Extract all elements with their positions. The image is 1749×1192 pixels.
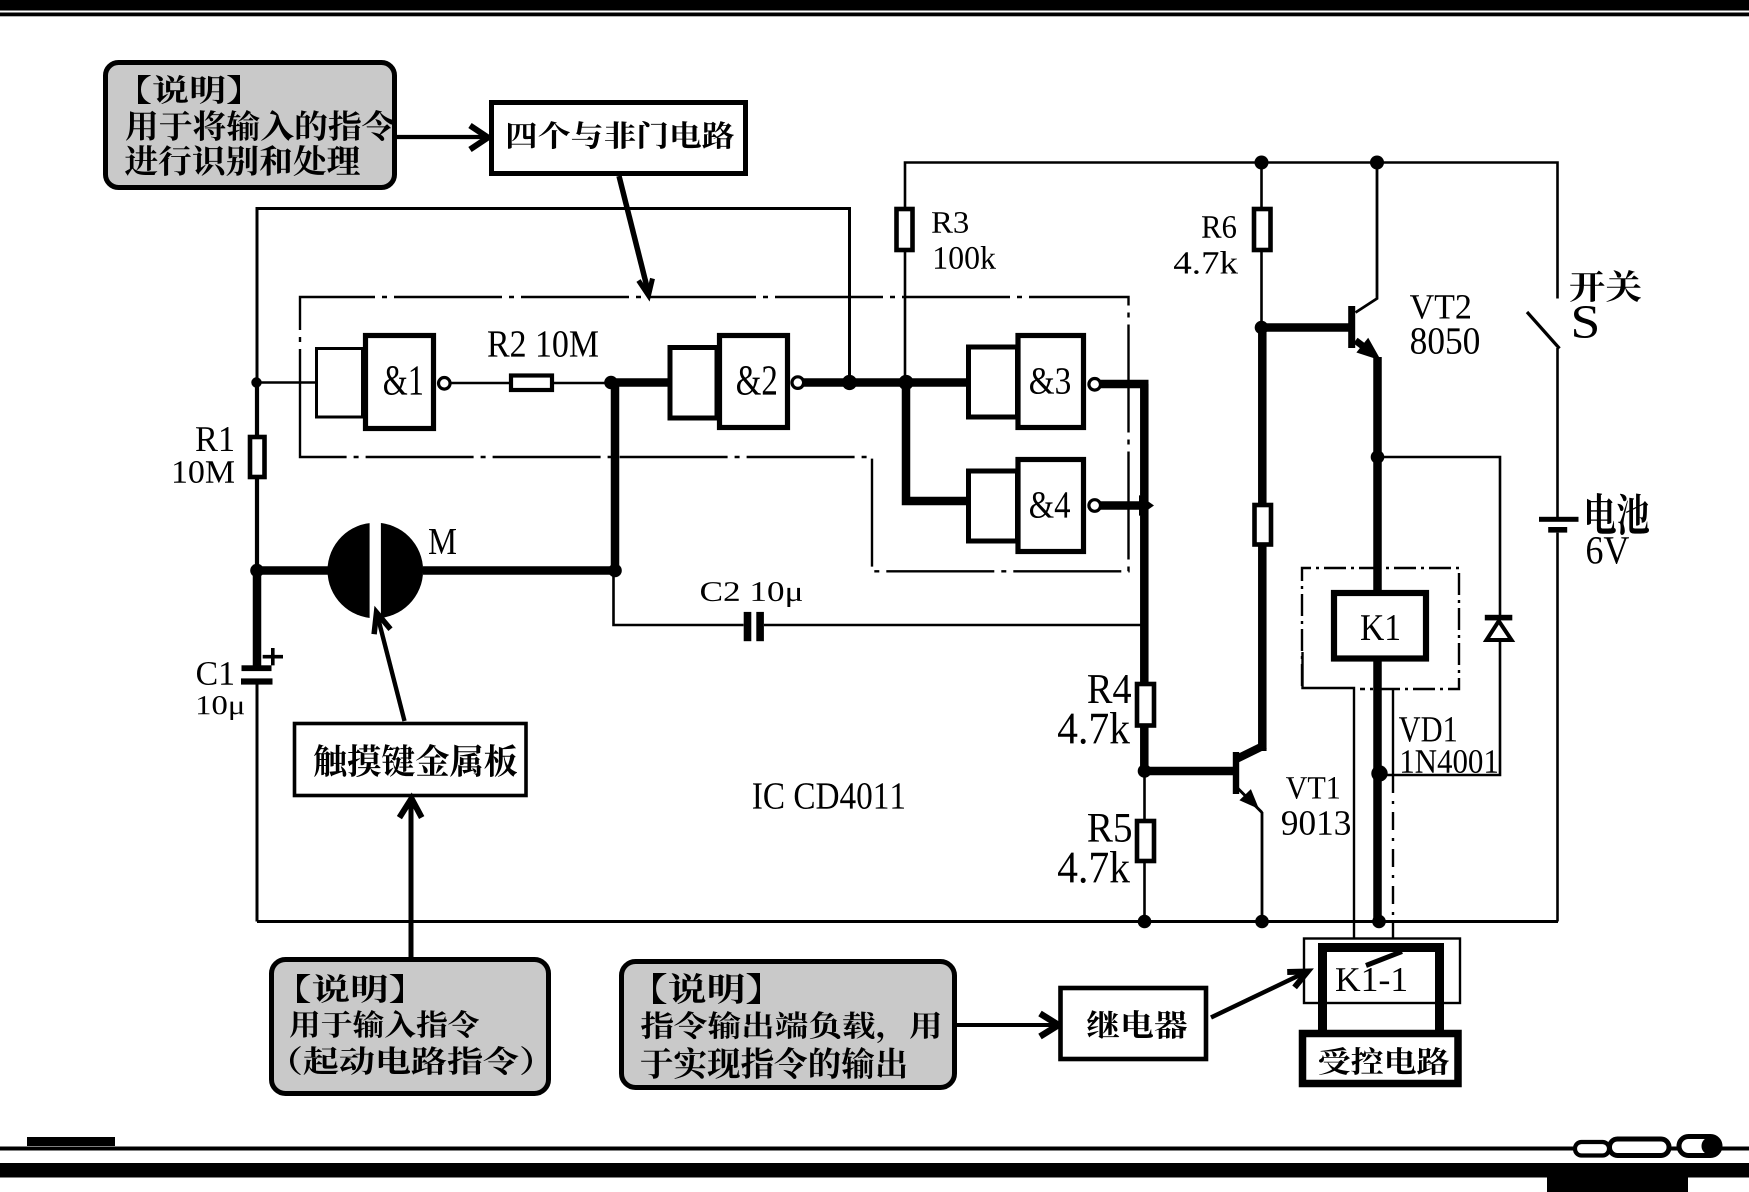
gate &2 input box [670,348,717,419]
page top black bar [0,0,1749,11]
arrowhead note1 to NAND-box [470,126,488,150]
capacitor C1 plate - (bottom) [241,678,273,684]
label R4 [1088,675,1131,703]
wire switch to battery [1556,348,1559,517]
wire VD1 top branch [1378,457,1501,615]
resistor R5 [1137,821,1154,861]
arrow NAND-box to IC outline [619,176,648,291]
note box 3 (output load) [622,962,955,1088]
junction node A [251,377,261,387]
touch plate M disc [328,523,424,619]
load box text 受控电路 [1319,1047,1449,1075]
arrow note1 to NAND-box [397,135,484,139]
gate &3 label [1030,368,1070,394]
note box 2 line 3 [290,1046,532,1075]
note box 1 (identify/process instructions) [106,63,395,188]
capacitor C1 polarity + [263,648,283,665]
junction node B (R2/&2/M) [604,376,618,390]
wire &2 output to &3 input (thick) [803,378,968,387]
note box 1 line 2 [126,110,395,141]
wire outer frame bottom [257,920,1558,923]
battery BT1 long plate [1539,517,1579,522]
label VD1 [1399,717,1456,742]
wire R5 to bottom rail [1143,861,1146,922]
wire base node down to R5 [1143,771,1146,821]
contact K1-1 outline box [1304,939,1460,1004]
label R5 [1088,814,1131,842]
wire &3 output right (thick) [1100,380,1149,389]
gate &4 body [1018,460,1084,552]
wire &1 out to R2 [451,382,512,385]
note box 3 line 2 [641,1011,940,1043]
junction emitter/VD1 top [1371,450,1385,464]
page bottom small tick [27,1137,115,1146]
touch plate M slit [370,522,381,619]
wire VT2 collector from rail [1356,163,1378,313]
value R4 4.7k [1058,712,1130,744]
transistor VT1 collector diagonal (thick) [1236,745,1266,760]
label R1 [196,427,233,451]
wire battery to bottom rail [1556,533,1559,922]
gate &2 body [720,336,788,428]
wire R4 to base node (thick) [1140,726,1149,772]
label R2 value 10M [488,331,598,357]
gate &4 output bubble [1089,500,1101,512]
wire R3 bottom to node [904,250,907,379]
wire VT2 base (thick) [1258,323,1351,332]
touch key label box 触摸键金属板 [295,724,527,796]
arrow relay-box to K1-1 [1211,974,1303,1018]
junction base node VT1 [1138,764,1152,778]
wire top rail [905,163,1558,299]
label box 四个与非门电路 [492,103,746,174]
junction rail/VT2 collector [1370,156,1384,170]
resistor R7 (collector chain) [1255,505,1272,545]
contact K1-1 frame (thick) [1323,948,1440,1032]
junction K1/VD1 bottom [1371,765,1387,781]
wire node to C1 (thick) [253,571,262,667]
arrowhead note2 to touch-key-box [399,799,421,818]
label VT2 [1410,295,1470,319]
wire M left (thick) [257,566,328,575]
contact K1-1 blade [1366,952,1402,966]
gate &4 input box [969,471,1018,541]
relay K1 outline (dash-dot) [1302,568,1459,689]
gate &1 output bubble [439,378,451,390]
junction &4 output/bus [1139,495,1154,516]
wire base node to VT1 (thick) [1141,767,1236,776]
gate &4 label [1030,492,1070,518]
wire node B down to M (thick) [611,383,620,571]
resistor R4 [1137,684,1154,726]
value VD1 1N4001 [1402,750,1497,773]
wire C2 to output bus [764,624,1144,627]
touch key label text [314,744,517,777]
label M [429,529,456,554]
wire K1 bottom (thick) [1373,662,1382,922]
wire branch down to &4 (thick) [906,379,968,501]
label R6 [1202,216,1236,238]
relay coil K1 box [1334,593,1426,659]
arrow touch-key-box to M [378,616,405,721]
value R5 4.7k [1058,851,1130,883]
battery BT1 short plate [1548,527,1567,533]
diode VD1 triangle [1487,621,1512,640]
load box 受控电路 [1303,1034,1459,1084]
label VT1 [1286,777,1339,799]
decoration pill 1 [1575,1142,1609,1156]
label box text 四个与非门电路 [508,121,734,149]
resistor R6 [1254,209,1271,250]
label C2 value 10μ [701,582,802,607]
transistor VT1 emitter arrowhead [1239,789,1259,809]
gate &3 output bubble [1089,379,1101,391]
relay label box 继电器 [1061,988,1207,1059]
relay label text 继电器 [1087,1010,1187,1039]
junction VT1 emitter/bottom rail [1255,915,1269,929]
capacitor C1 plate + (top) [242,665,272,671]
wire VT2 emitter down to K1 (thick) [1373,357,1382,590]
arrowhead NAND-box to IC outline [639,279,653,296]
wire R2 to node B [552,382,609,385]
junction &2out/outer-frame [842,375,857,390]
switch S blade [1527,312,1560,349]
wire outer frame left+top+right [257,209,850,922]
wire R6 bottom to VT2 base node [1260,250,1263,328]
gate &3 input box [969,347,1018,417]
transistor VT1 emitter diagonal [1237,788,1262,813]
junction M right node [608,564,622,578]
transistor VT1 base bar [1233,752,1239,794]
page top rule line [0,13,1749,17]
note box 3 line 3 [641,1047,906,1079]
gate &2 output bubble [792,377,804,389]
capacitor C1 dielectric gap mask [251,670,263,679]
junction &2out/R3 [898,375,913,390]
wire node A to &1 input [257,381,316,384]
diode VD1 cathode bar [1485,615,1513,621]
note box 2 line 2 [290,1010,479,1038]
label battery 电池 [1587,493,1649,535]
wire node B to &2 input (thick) [607,378,668,387]
gate &1 body [366,336,434,429]
decoration pill 2 [1610,1139,1670,1156]
arrowhead note3 to relay box [1040,1014,1059,1037]
junction R5/bottom rail [1138,915,1152,929]
relay linkage right [1392,689,1394,775]
junction rail/R6 [1255,156,1269,170]
value R6 4.7k [1174,251,1238,274]
decoration pill 3 blob [1702,1137,1720,1155]
gate &1 label [384,366,422,395]
junction M left node [250,564,264,578]
transistor VT2 emitter arrowhead [1356,338,1381,361]
value VT2 8050 [1411,328,1479,354]
relay linkage right dashed [1392,775,1394,938]
relay designator K1 [1361,615,1399,640]
note box 2 (input instruction) [272,960,549,1094]
wire M node down to C2 [614,571,744,626]
label switch S [1574,306,1597,338]
wire VT1 collector up (thick) [1258,545,1267,752]
wire &4 output right (thick) [1100,501,1149,510]
IC designator IC CD4011 [753,783,904,809]
decoration pill 3 [1679,1137,1720,1156]
wire R1 column (node A to M node) [255,383,259,571]
relay linkage left (step) [1303,652,1355,938]
arrowhead relay-box to K1-1 [1287,972,1307,988]
junction K1 wire/bottom rail [1372,915,1386,929]
arrow note3 to relay box [957,1023,1055,1027]
label C1 [197,662,233,685]
value C1 10μ [198,696,244,720]
transistor VT2 emitter diagonal (thick) [1356,341,1369,351]
resistor R1 [250,437,265,477]
value R3 100k [935,246,996,269]
transistor VT2 base bar [1348,306,1355,348]
note box 1 line 3 [125,145,360,176]
gate &1 input box [317,349,363,418]
page bottom rule line [0,1147,1749,1151]
arrowhead touch-key-box to M [374,613,390,635]
resistor R3 [897,209,913,250]
wire M right (thick) [423,566,619,575]
capacitor C2 left plate [744,612,752,641]
wire output bus down to R4 (thick) [1140,384,1149,684]
wire R7 up to VT2 base node (thick) [1258,328,1267,506]
junction VT2 base node [1255,321,1269,335]
capacitor C2 right plate [756,612,764,641]
wire VT1 emitter to bottom rail [1261,812,1264,922]
gate &3 body [1018,336,1084,428]
contact designator K1-1 [1336,968,1406,991]
wire VD1 bottom branch [1383,641,1500,775]
resistor R2 [511,376,552,391]
value VT1 9013 [1282,811,1350,835]
note box 1 title 【说明】 [138,75,240,104]
label switch 开关 [1570,270,1641,302]
value battery 6V [1587,537,1629,564]
gate &2 label [737,366,776,395]
note box 2 title 【说明】 [297,974,403,1003]
label R3 [932,212,968,233]
note box 3 title 【说明】 [653,973,760,1004]
value R1 10M [174,461,234,483]
IC CD4011 outline (dash-dot) [300,297,1129,571]
page bottom tab [1547,1176,1688,1192]
page bottom black bar [0,1163,1749,1178]
arrow note2 to touch-key-box [409,800,414,957]
wire R6 top to rail [1260,163,1263,210]
